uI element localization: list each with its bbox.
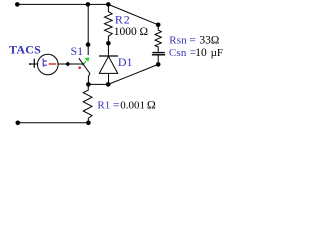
svg-text:33: 33 (199, 34, 211, 46)
svg-text:D1: D1 (118, 55, 133, 69)
svg-text:=: = (113, 99, 120, 111)
svg-text:µF: µF (211, 47, 223, 59)
svg-text:Rsn: Rsn (169, 34, 187, 46)
svg-text:Ω: Ω (147, 97, 156, 111)
svg-text:1000: 1000 (114, 26, 137, 38)
svg-text:=: = (189, 34, 196, 46)
svg-text:Csn: Csn (169, 47, 187, 59)
svg-text:R2: R2 (115, 13, 131, 27)
svg-text:Ω: Ω (140, 26, 149, 38)
svg-text:R1: R1 (97, 99, 110, 111)
svg-text:0.001: 0.001 (120, 99, 145, 111)
svg-text:TACS: TACS (9, 43, 41, 57)
svg-text:Ω: Ω (211, 34, 220, 46)
svg-text:10: 10 (195, 47, 207, 59)
svg-text:S1: S1 (71, 44, 84, 58)
